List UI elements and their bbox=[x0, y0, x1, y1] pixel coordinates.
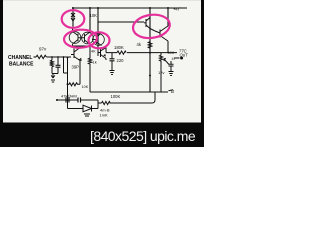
svg-text:1k: 1k bbox=[93, 60, 97, 65]
wire drop x=58 bbox=[57, 57, 59, 65]
wire vertical x=67.5 long bbox=[67, 58, 69, 109]
node rail junction dots bbox=[72, 7, 169, 9]
svg-text:100K: 100K bbox=[111, 94, 121, 99]
wire top supply rail bbox=[72, 7, 187, 9]
left black scan border bbox=[0, 0, 3, 147]
wire vertical collector branch x=90 bbox=[89, 8, 91, 32]
resistor 1k vertical x=90 bbox=[88, 46, 91, 92]
pot wiper arrow bbox=[164, 59, 169, 65]
node junction dot feedback tap bbox=[67, 83, 69, 85]
wire long feedback row A y=92 bbox=[90, 91, 168, 93]
wire vertical x=168 bbox=[167, 8, 169, 26]
transistor Q6 (circled output pair lower) bbox=[155, 26, 168, 53]
svg-text:97v: 97v bbox=[39, 47, 47, 52]
wire Q7 emitter down bbox=[79, 61, 81, 85]
transistor Q2 (diff pair left) bbox=[69, 28, 81, 46]
capacitor 220 bbox=[110, 59, 115, 61]
wire row C y=103 bbox=[98, 102, 152, 104]
svg-text:180K: 180K bbox=[114, 45, 124, 50]
wire diff pair emitters join bbox=[73, 45, 91, 47]
wire input dash bbox=[34, 56, 37, 58]
svg-text:4K: 4K bbox=[91, 50, 96, 54]
svg-text:47: 47 bbox=[172, 57, 176, 61]
svg-text:10K: 10K bbox=[90, 13, 98, 18]
resistor input horizontal zigzag bbox=[36, 55, 46, 58]
svg-text:CHANNEL: CHANNEL bbox=[8, 55, 32, 61]
node dot row B left end bbox=[56, 99, 58, 101]
magenta circle C1 current source bbox=[62, 10, 85, 28]
wire vertical x=150 main right bus bbox=[149, 8, 151, 92]
wire 52.6 row to output terminal bbox=[150, 52, 177, 54]
transistor Q8 driver bbox=[98, 48, 106, 61]
svg-text:47kΩHM: 47kΩHM bbox=[61, 93, 77, 98]
resistor 100K horizontal bbox=[102, 101, 111, 104]
node dot mid bus bbox=[149, 75, 151, 77]
current source Q1 symbol bbox=[71, 13, 75, 21]
svg-text:•4Iˇ: •4Iˇ bbox=[174, 7, 181, 12]
terminal dot bbox=[180, 57, 183, 60]
magenta circle C4 output pair bbox=[132, 12, 172, 40]
transistor Q3 (diff pair right) bbox=[82, 30, 94, 46]
magenta circle C3 Q4 bbox=[89, 32, 110, 48]
ground below 220 bbox=[110, 71, 115, 75]
label -B output arrow bbox=[169, 90, 174, 91]
capacitor bars row B left bbox=[66, 98, 69, 103]
svg-text:12v: 12v bbox=[158, 70, 164, 75]
faint scan streak top edge bbox=[3, 0, 201, 1]
right black scan border bbox=[201, 0, 204, 147]
capacitor bars row B bbox=[78, 98, 81, 103]
resistor 7k vertical bbox=[50, 60, 53, 74]
wire input to Q7 base bbox=[47, 56, 72, 58]
svg-text:50K: 50K bbox=[168, 51, 175, 55]
wire triangle input bbox=[68, 108, 84, 110]
resistor 10K feedback horizontal bbox=[68, 83, 81, 86]
svg-text:[840x525] upic.me: [840x525] upic.me bbox=[90, 128, 196, 144]
diode triangle bbox=[83, 105, 92, 112]
bottom watermark bar bbox=[0, 123, 204, 148]
svg-text:10K: 10K bbox=[82, 85, 89, 89]
potentiometer 50K on x=161 bbox=[159, 53, 162, 92]
transistor Q4 bbox=[92, 34, 104, 46]
svg-text:39P: 39P bbox=[72, 65, 80, 70]
svg-text:1mK: 1mK bbox=[100, 112, 109, 117]
resistor 180K horizontal bbox=[117, 51, 126, 54]
Q8 emitter arrow bbox=[103, 54, 106, 57]
wire row B y=100 bbox=[57, 99, 98, 101]
wire vertical x=98 down to Q4 bbox=[97, 8, 99, 48]
paper background bbox=[0, 0, 204, 147]
wire vertical from rail through current source bbox=[72, 8, 74, 26]
wire current source into left collector bbox=[72, 26, 75, 32]
wire drop x=112 bbox=[111, 53, 113, 59]
svg-text:B: B bbox=[171, 89, 174, 94]
transistor Q5 (circled output pair upper) bbox=[144, 16, 155, 31]
wire drop x=63.5 to junction bbox=[64, 57, 68, 73]
node dot at 150,52.6 bbox=[149, 52, 151, 54]
wire terminal stub bbox=[174, 57, 180, 59]
capacitor bars x=58 bbox=[56, 65, 61, 67]
ground chevrons below triangle bbox=[84, 114, 90, 116]
wire diff pair base tie bbox=[78, 37, 85, 39]
wire triangle output bbox=[92, 108, 99, 110]
magenta circle C2 diff pair bbox=[64, 29, 98, 49]
transistor Q7 input bbox=[71, 46, 81, 61]
wire join bottoms bbox=[52, 73, 58, 75]
wire drop x=52 bbox=[51, 57, 53, 60]
wire corner x=98 down bbox=[97, 100, 99, 109]
node dots input wire bbox=[51, 56, 68, 58]
svg-text:7k: 7k bbox=[50, 61, 54, 65]
capacitor with ground x=171 bbox=[169, 61, 174, 76]
svg-text:BALANCE: BALANCE bbox=[9, 61, 34, 67]
svg-text:220: 220 bbox=[117, 58, 125, 63]
wire right bend row C up to row A bbox=[152, 92, 155, 103]
wire 180K row bbox=[106, 52, 150, 54]
resistor 4k vertical on x=150 bbox=[148, 42, 152, 49]
wire base feed to Q5 bbox=[98, 21, 144, 23]
ground arrow below bbox=[51, 74, 55, 83]
